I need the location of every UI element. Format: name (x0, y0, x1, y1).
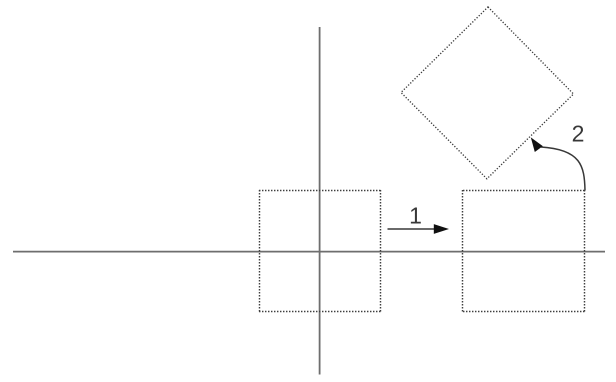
svg-text:2: 2 (572, 121, 585, 147)
svg-text:1: 1 (409, 203, 422, 229)
